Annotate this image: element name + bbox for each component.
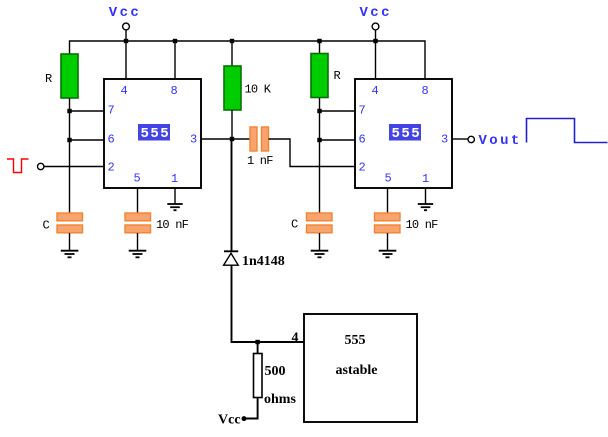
wire Vcc2 to bus — [375, 30, 377, 41]
capacitor C2 — [307, 213, 333, 233]
svg-text:5: 5 — [134, 172, 141, 186]
svg-text:Vcc: Vcc — [218, 413, 241, 428]
svg-text:6: 6 — [359, 133, 366, 147]
wire junction to 500 ohm resistor — [257, 342, 259, 354]
ground pin1 U1 — [167, 204, 182, 210]
wire junction to diode — [231, 139, 233, 251]
Vcc terminal 1 circle — [123, 23, 130, 30]
svg-text:8: 8 — [422, 84, 429, 98]
resistor R2 — [319, 41, 321, 54]
svg-text:6: 6 — [108, 133, 115, 147]
ground C2 — [311, 251, 329, 258]
svg-text:1 nF: 1 nF — [247, 154, 273, 168]
ground C1 — [61, 251, 79, 258]
svg-text:Vout: Vout — [479, 133, 522, 149]
wire pin6 U2 — [320, 139, 356, 141]
wire pin7 U2 — [320, 110, 356, 112]
IC U2 555 timer body — [355, 79, 452, 188]
node junction 500 ohm tap — [255, 340, 259, 344]
svg-text:555: 555 — [392, 126, 422, 142]
ground 10nF second — [379, 251, 397, 258]
svg-text:2: 2 — [108, 161, 115, 175]
svg-text:4: 4 — [292, 331, 299, 346]
wire 500 ohm to Vcc dot — [246, 398, 258, 419]
node junction pin8 U1 on bus — [173, 39, 177, 43]
capacitor C1 — [57, 213, 83, 233]
node junction 10K on bus — [230, 39, 234, 43]
Vout terminal circle — [468, 136, 474, 142]
svg-text:5: 5 — [385, 172, 392, 186]
ground pin1 U2 — [418, 204, 433, 210]
ground 10nF first — [129, 251, 147, 258]
wire pin5 U2 to 10nF cap — [387, 188, 389, 213]
wire pin1 U1 to ground — [174, 188, 176, 204]
U2 555 chip label — [389, 124, 421, 142]
wire top Vcc bus — [70, 41, 426, 79]
wire pin3 U1 to 1nF — [201, 138, 250, 140]
wire Vcc1 to bus — [125, 30, 127, 41]
node junction Vcc1/pin4 on bus — [124, 39, 128, 43]
node junction pin6 U2 — [317, 138, 321, 142]
U1 555 chip label — [138, 124, 170, 142]
svg-text:8: 8 — [171, 84, 178, 98]
svg-text:4: 4 — [372, 84, 379, 98]
node junction pin6 U1 — [67, 138, 71, 142]
wire pin6 U1 — [70, 139, 105, 141]
wire pin3 U2 to Vout — [452, 138, 468, 140]
wire C2 to ground — [319, 233, 321, 251]
svg-text:555: 555 — [345, 333, 366, 348]
wire pin4 U1 to bus — [125, 41, 127, 79]
svg-text:10 K: 10 K — [245, 82, 272, 96]
node junction pin3/diode branch — [230, 137, 234, 141]
wire pin4 U2 to bus — [375, 41, 377, 79]
Vout square wave symbol — [527, 119, 608, 143]
wire pin8 U1 to bus — [174, 41, 176, 79]
svg-text:3: 3 — [441, 133, 448, 147]
diode D1 1n4148 — [224, 251, 239, 265]
wire pin7 U1 — [70, 110, 105, 112]
capacitor 1nF — [250, 127, 269, 151]
svg-text:C: C — [291, 218, 298, 232]
Vcc bottom terminal dot — [242, 416, 247, 421]
wire pin1 U2 to ground — [425, 188, 427, 204]
trigger input terminal circle — [38, 163, 44, 169]
svg-text:4: 4 — [121, 84, 128, 98]
wire 10nF first to ground — [137, 233, 139, 251]
capacitor 10nF first — [125, 213, 151, 233]
wire C1 to ground — [69, 233, 71, 251]
block 555 astable — [304, 314, 417, 422]
wire pin5 U1 to 10nF cap — [137, 188, 139, 213]
svg-text:C: C — [43, 218, 50, 232]
svg-text:ohms: ohms — [264, 392, 296, 407]
svg-text:Vcc: Vcc — [109, 5, 141, 21]
svg-text:3: 3 — [190, 133, 197, 147]
svg-text:10 nF: 10 nF — [406, 218, 439, 232]
wire 10K bottom to junction — [231, 110, 233, 139]
node junction pin7 U1 — [67, 109, 71, 113]
svg-text:10 nF: 10 nF — [156, 218, 189, 232]
Vcc terminal 2 circle — [372, 23, 379, 30]
svg-text:7: 7 — [359, 104, 366, 118]
svg-text:555: 555 — [141, 126, 171, 142]
node junction R2 on bus — [317, 39, 321, 43]
resistor R1 — [61, 54, 78, 98]
svg-text:1: 1 — [171, 172, 178, 186]
svg-text:R: R — [334, 69, 341, 83]
svg-text:1n4148: 1n4148 — [242, 254, 285, 269]
wire 10nF second to ground — [387, 233, 389, 251]
IC U1 555 timer body — [104, 79, 201, 188]
capacitor 10nF second — [375, 213, 401, 233]
svg-text:Vcc: Vcc — [360, 5, 392, 21]
wire trigger to pin2 U1 — [44, 166, 104, 168]
wire left rail below R1 — [69, 98, 71, 213]
resistor 10K — [231, 41, 233, 66]
svg-text:R: R — [45, 72, 52, 86]
node junction pin7 U2 — [317, 109, 321, 113]
wire diode to astable box — [232, 265, 305, 342]
wire 1nF to pin2 U2 — [269, 139, 356, 167]
svg-text:astable: astable — [336, 363, 378, 378]
svg-text:500: 500 — [265, 364, 286, 379]
resistor 500 ohms — [254, 354, 263, 398]
trigger input pulse symbol — [7, 159, 29, 173]
svg-text:7: 7 — [108, 104, 115, 118]
node junction Vcc2/pin4 on bus — [373, 39, 377, 43]
wire right rail below R2 — [319, 98, 321, 214]
svg-text:1: 1 — [422, 172, 429, 186]
svg-text:2: 2 — [359, 161, 366, 175]
